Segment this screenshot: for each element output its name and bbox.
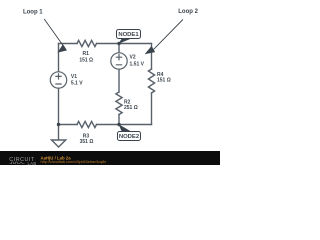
- svg-text:351 Ω: 351 Ω: [80, 139, 94, 145]
- voltage source V2: [111, 53, 127, 69]
- svg-text:151 Ω: 151 Ω: [157, 78, 171, 84]
- wire R1 to top-right corner: [97, 43, 152, 45]
- svg-text:251 Ω: 251 Ω: [124, 105, 138, 111]
- svg-text:NODE1: NODE1: [118, 32, 139, 38]
- loop 1 annotation arrow: [44, 19, 67, 53]
- svg-text:V2: V2: [130, 54, 136, 60]
- loop 2 annotation arrow: [145, 20, 183, 55]
- watermark bar: [0, 151, 220, 165]
- wire R4 down to bottom-right corner: [151, 93, 153, 125]
- watermark logo waveform: [10, 162, 25, 164]
- resistor R1: [77, 40, 97, 46]
- junction node at NODE1: [117, 42, 120, 45]
- wire top-right corner down to R4: [151, 44, 153, 70]
- svg-text:1.51 V: 1.51 V: [130, 62, 145, 68]
- wire left branch down to V1: [58, 44, 60, 72]
- resistor R2: [116, 92, 122, 115]
- wire top-left to R1: [59, 43, 78, 45]
- wire V1 down to bottom junction: [58, 88, 60, 140]
- wire bottom junction to R3: [59, 124, 78, 126]
- svg-text:NODE2: NODE2: [119, 134, 140, 140]
- voltage source V1: [50, 72, 66, 88]
- resistor R4: [148, 69, 154, 93]
- svg-text:R1: R1: [82, 51, 89, 57]
- resistor R3: [77, 121, 97, 127]
- ground: [52, 140, 66, 147]
- junction node at NODE2: [117, 123, 120, 126]
- wire R3 to bottom-right corner: [97, 124, 152, 126]
- wire R2 to bottom wire: [118, 115, 120, 125]
- svg-text:LAB: LAB: [28, 161, 37, 165]
- svg-text:http://circuitlab.com/c/5pb53e: http://circuitlab.com/c/5pb53ebac3cq8e: [41, 160, 107, 164]
- wire middle branch NODE1 down to V2: [118, 44, 120, 53]
- svg-text:V1: V1: [71, 74, 77, 80]
- wire V2 down to R2: [118, 69, 120, 92]
- svg-text:Loop 1: Loop 1: [23, 10, 43, 16]
- junction node bottom-left: [57, 123, 60, 126]
- svg-text:5.1 V: 5.1 V: [71, 80, 83, 86]
- node NODE1 callout: [117, 30, 141, 44]
- node NODE2 callout: [118, 124, 141, 140]
- svg-text:151 Ω: 151 Ω: [79, 57, 93, 63]
- svg-text:Loop 2: Loop 2: [178, 9, 198, 15]
